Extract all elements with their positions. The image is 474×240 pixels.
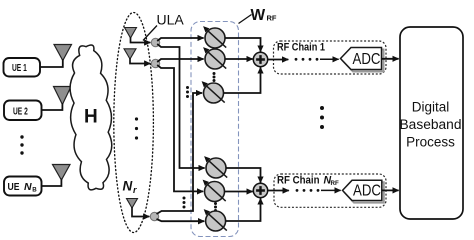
wire ULA ant2 to node 2	[130, 58, 150, 64]
label RF Chain NRF	[277, 175, 339, 187]
svg-text:Process: Process	[406, 135, 455, 150]
wire PS5 out to sum2 left	[225, 191, 253, 193]
wire PS4 out to sum2 top	[226, 168, 261, 183]
svg-text:Digital: Digital	[412, 100, 450, 115]
phase shifter PS1	[203, 26, 226, 48]
svg-text:RF: RF	[331, 180, 339, 187]
wire ULA ant Nr to node 3	[132, 207, 149, 217]
wire UE NB to antenna	[42, 179, 62, 187]
dots between PS5 and PS6	[214, 202, 217, 212]
ULA antenna Nr	[127, 199, 138, 209]
UE NB box	[4, 177, 42, 196]
ADC2	[343, 180, 382, 200]
ADC2 shadow	[345, 182, 384, 202]
antenna UE NB	[53, 165, 71, 181]
channel cloud H	[66, 44, 117, 191]
wire ADC2 to digital box	[382, 189, 399, 191]
wire node3 up-branch to PS3	[157, 93, 203, 214]
phase shifter PS2	[203, 47, 226, 69]
Digital Baseband Process box	[400, 27, 463, 219]
ADC1	[341, 48, 382, 70]
svg-text:H: H	[84, 107, 98, 128]
node 3	[150, 212, 158, 220]
wire UE1 to antenna	[40, 59, 63, 67]
phase shifter PS3	[202, 81, 225, 103]
dotted wire inside RF chain NRF	[296, 189, 320, 192]
WRF dashed box	[191, 22, 239, 237]
UE 1 box	[4, 58, 41, 77]
summation sum1	[253, 52, 267, 66]
svg-text:ADC: ADC	[353, 183, 381, 200]
wire PS3 out to sum1 bottom	[224, 67, 261, 93]
svg-text:Baseband: Baseband	[400, 117, 462, 132]
ULA antenna 2	[124, 49, 136, 59]
wire UE2 to antenna	[42, 103, 63, 110]
dots between RF chains	[320, 106, 324, 129]
antenna UE2	[54, 87, 72, 105]
wire PS6 out to sum2 bottom	[226, 198, 261, 221]
antenna UE1	[54, 45, 72, 61]
wire ULA ant1 to node 1	[131, 37, 151, 43]
wire node2 down-branch to PS5	[157, 65, 203, 191]
wire PS2 out to sum1 left	[225, 58, 253, 60]
ULA pointer line	[143, 26, 157, 41]
wire node1 to PS1	[157, 38, 203, 41]
WRF pointer line	[239, 15, 252, 24]
svg-text:UE 1: UE 1	[12, 62, 27, 74]
node 1	[151, 38, 159, 46]
ADC1 shadow	[343, 50, 384, 72]
svg-text:ADC: ADC	[353, 51, 381, 68]
dots between UE boxes	[20, 135, 23, 154]
wire to ADC1	[320, 58, 339, 60]
wire sum2 to RF chain NRF	[268, 190, 289, 192]
svg-text:RF: RF	[267, 13, 277, 22]
wire sum1 to RF chain 1	[268, 59, 289, 61]
dots between PS2 and PS3	[213, 72, 216, 82]
RF Chain 1 dashed box	[274, 41, 387, 74]
svg-text:N: N	[24, 181, 32, 193]
RF Chain NRF dashed box	[274, 174, 386, 207]
dots left of PS3	[186, 86, 189, 98]
wire to ADC2	[321, 189, 341, 191]
summation sum2	[253, 183, 267, 197]
svg-text:r: r	[133, 185, 137, 195]
svg-text:B: B	[32, 186, 37, 193]
wire node1 down-branch to PS4	[157, 44, 204, 168]
UE 2 box	[4, 101, 42, 121]
svg-text:UE 2: UE 2	[13, 105, 28, 117]
svg-text:UE: UE	[8, 181, 20, 193]
svg-text:RF Chain: RF Chain	[277, 175, 320, 187]
wire ADC1 to digital box	[382, 58, 399, 60]
dotted wire inside RF chain 1	[295, 58, 319, 61]
wire node3 to PS6	[157, 219, 205, 221]
dots left of PS6	[183, 197, 186, 209]
svg-text:W: W	[251, 7, 266, 24]
ULA antenna 1	[125, 28, 137, 39]
svg-text:RF Chain 1: RF Chain 1	[277, 42, 325, 54]
node 2	[151, 59, 159, 67]
svg-text:N: N	[123, 179, 133, 194]
phase shifter PS5	[203, 180, 226, 202]
wire node2 to PS2	[157, 59, 203, 62]
svg-text:ULA: ULA	[157, 12, 185, 28]
phase shifter PS6	[204, 209, 227, 231]
wire PS1 out to sum1 top	[225, 38, 261, 52]
dots inside ULA ellipse	[135, 117, 138, 139]
ULA dotted ellipse	[114, 13, 154, 233]
phase shifter PS4	[204, 156, 227, 178]
